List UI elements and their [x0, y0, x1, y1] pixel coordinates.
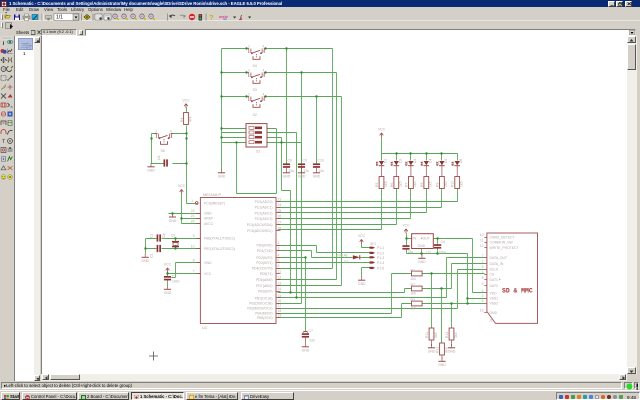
svg-text:C1: C1 — [150, 234, 154, 238]
svg-text:D3: D3 — [413, 159, 417, 163]
svg-text:VSS2: VSS2 — [490, 302, 499, 306]
svg-text:C9: C9 — [303, 159, 307, 163]
svg-text:U2: U2 — [427, 251, 431, 255]
svg-text:R2: R2 — [411, 283, 415, 287]
svg-text:R1: R1 — [411, 269, 415, 273]
svg-text:i: i — [3, 41, 5, 47]
svg-text:1/1: 1/1 — [56, 15, 63, 21]
svg-text:D1: D1 — [384, 159, 388, 163]
svg-text:26: 26 — [278, 215, 282, 219]
svg-text:S3: S3 — [253, 88, 257, 92]
svg-text:R3: R3 — [411, 298, 415, 302]
svg-text:R8: R8 — [420, 183, 424, 187]
svg-text:PD5(T1): PD5(T1) — [260, 272, 273, 276]
svg-text:MEGA8-P: MEGA8-P — [203, 192, 221, 197]
svg-text:14: 14 — [278, 287, 282, 291]
svg-text:C7: C7 — [309, 329, 313, 333]
svg-text:VDD: VDD — [490, 291, 498, 295]
svg-text:R11: R11 — [425, 332, 429, 338]
svg-text:T: T — [2, 139, 6, 145]
svg-text:7: 7 — [193, 270, 195, 274]
svg-text:1k0: 1k0 — [411, 291, 417, 295]
svg-text:D4: D4 — [428, 159, 432, 163]
svg-text:3k3: 3k3 — [434, 332, 438, 338]
svg-text:VCC: VCC — [204, 272, 212, 276]
svg-text:?: ? — [209, 13, 214, 21]
svg-text:9: 9 — [193, 234, 195, 238]
svg-text:6: 6 — [278, 264, 280, 268]
svg-text:R9: R9 — [435, 183, 439, 187]
svg-text:16: 16 — [278, 299, 282, 303]
svg-text:17: 17 — [278, 304, 282, 308]
svg-text:VSS1: VSS1 — [490, 297, 499, 301]
svg-text:3k3: 3k3 — [454, 332, 458, 338]
svg-text:PC3(ADC3): PC3(ADC3) — [255, 217, 273, 221]
svg-text:S1: S1 — [256, 150, 260, 154]
svg-text:15: 15 — [278, 294, 282, 298]
svg-text:22n: 22n — [289, 169, 295, 173]
svg-text:Q1: Q1 — [171, 234, 176, 238]
svg-text:11: 11 — [278, 270, 282, 274]
svg-text:22n: 22n — [319, 169, 325, 173]
svg-text:19: 19 — [278, 314, 282, 318]
svg-text:DATA_OUT: DATA_OUT — [490, 256, 508, 260]
svg-text:PD4(XCK/T0): PD4(XCK/T0) — [252, 267, 273, 271]
svg-text:R6: R6 — [390, 183, 394, 187]
svg-text:D6: D6 — [459, 159, 463, 163]
svg-text:1N4148: 1N4148 — [336, 253, 348, 257]
svg-text:1: 1 — [482, 270, 484, 274]
svg-text:22: 22 — [191, 209, 195, 213]
svg-text:PD7(AIN1): PD7(AIN1) — [256, 284, 272, 288]
svg-text:47k: 47k — [189, 116, 193, 122]
svg-text:SD & MMC: SD & MMC — [502, 288, 533, 295]
svg-text:CARD_DETECT: CARD_DETECT — [490, 235, 515, 239]
svg-text:PD0(RXD): PD0(RXD) — [256, 244, 272, 248]
svg-text:P1-1: P1-1 — [377, 246, 384, 250]
svg-text:GND: GND — [418, 244, 426, 248]
svg-text:13: 13 — [480, 309, 484, 313]
svg-text:100n: 100n — [172, 280, 180, 284]
svg-text:PB0(ICP): PB0(ICP) — [258, 290, 272, 294]
svg-text:SCLK: SCLK — [490, 268, 500, 272]
svg-text:1k0: 1k0 — [411, 277, 417, 281]
svg-text:1k5: 1k5 — [413, 181, 417, 187]
svg-text:6: 6 — [482, 299, 484, 303]
svg-text:2: 2 — [278, 241, 280, 245]
svg-text:PC5(ADC5/SCL): PC5(ADC5/SCL) — [247, 229, 272, 233]
svg-text:1k5: 1k5 — [444, 181, 448, 187]
svg-text:C2: C2 — [150, 254, 154, 258]
svg-text:12: 12 — [480, 244, 484, 248]
svg-text:1k5: 1k5 — [399, 181, 403, 187]
svg-text:S4: S4 — [253, 64, 257, 68]
svg-text:PC2(ADC2): PC2(ADC2) — [255, 211, 273, 215]
svg-text:4: 4 — [278, 253, 280, 257]
svg-text:23: 23 — [278, 198, 282, 202]
svg-text:D2: D2 — [398, 159, 402, 163]
svg-text:11: 11 — [480, 238, 484, 242]
svg-text:DAT2: DAT2 — [490, 284, 499, 288]
svg-text:C6: C6 — [157, 156, 161, 160]
svg-text:R10: R10 — [451, 181, 455, 187]
svg-text:R7: R7 — [404, 183, 408, 187]
svg-text:PB7(XTAL2/TOSC2): PB7(XTAL2/TOSC2) — [204, 247, 235, 251]
svg-text:U1: U1 — [202, 325, 208, 330]
svg-text:S2: S2 — [253, 113, 257, 117]
svg-text:D5: D5 — [444, 159, 448, 163]
svg-text:PD6(AIN0): PD6(AIN0) — [256, 278, 272, 282]
svg-text:PC0(ADC0): PC0(ADC0) — [255, 200, 273, 204]
svg-text:R13: R13 — [445, 332, 449, 338]
svg-text:WRITE_PROTECT: WRITE_PROTECT — [490, 246, 519, 250]
svg-text:5: 5 — [482, 265, 484, 269]
svg-text:R4: R4 — [180, 118, 184, 122]
svg-text:P1-3: P1-3 — [377, 256, 384, 260]
svg-text:C4: C4 — [441, 240, 445, 244]
svg-text:PC1(ADC1): PC1(ADC1) — [255, 206, 273, 210]
svg-text:PB3(MOSI/OC2): PB3(MOSI/OC2) — [247, 307, 272, 311]
svg-text:SIO: SIO — [370, 242, 376, 246]
svg-text:AVCC: AVCC — [204, 222, 214, 226]
svg-text:25: 25 — [278, 209, 282, 213]
svg-text:PD1(TXD): PD1(TXD) — [257, 249, 273, 253]
svg-text:C3: C3 — [172, 275, 176, 279]
svg-text:100n: 100n — [439, 250, 447, 254]
svg-text:5: 5 — [278, 259, 280, 263]
svg-text:24: 24 — [278, 203, 282, 207]
svg-text:12: 12 — [278, 276, 282, 280]
svg-text:GND: GND — [169, 219, 177, 223]
svg-text:R12: R12 — [436, 347, 440, 353]
svg-text:20: 20 — [191, 220, 195, 224]
svg-text:R5: R5 — [375, 183, 379, 187]
svg-text:3: 3 — [482, 294, 484, 298]
svg-text:DATA_IN: DATA_IN — [490, 262, 504, 266]
svg-text:1k0: 1k0 — [411, 307, 417, 311]
svg-text:C8: C8 — [288, 159, 292, 163]
svg-text:D7: D7 — [344, 260, 348, 264]
svg-text:GND: GND — [204, 212, 212, 216]
svg-text:1k5: 1k5 — [429, 181, 433, 187]
svg-text:21: 21 — [191, 214, 195, 218]
svg-text:PC4(ADC4/SDA): PC4(ADC4/SDA) — [247, 223, 273, 227]
svg-text:10u: 10u — [408, 250, 414, 254]
svg-text:PB6(XTAL1/TOSC1): PB6(XTAL1/TOSC1) — [204, 236, 235, 240]
svg-text:3: 3 — [278, 247, 280, 251]
svg-text:22n: 22n — [304, 169, 310, 173]
svg-text:PD2(INT0): PD2(INT0) — [256, 256, 272, 260]
svg-text:AREF: AREF — [204, 217, 213, 221]
svg-text:8: 8 — [193, 259, 195, 263]
svg-text:P1-4: P1-4 — [377, 261, 384, 265]
svg-text:PB2(SS/OC1B): PB2(SS/OC1B) — [249, 302, 272, 306]
svg-text:13: 13 — [278, 281, 282, 285]
svg-text:GND: GND — [490, 311, 498, 315]
svg-text:1k5: 1k5 — [384, 181, 388, 187]
svg-text:PB4(MISO): PB4(MISO) — [255, 312, 272, 316]
svg-text:PD3(INT1): PD3(INT1) — [256, 261, 272, 265]
svg-text:22p: 22p — [162, 233, 166, 239]
svg-text:PB5(SCK): PB5(SCK) — [257, 316, 273, 320]
svg-text:COMMON_SW: COMMON_SW — [490, 241, 514, 245]
svg-text:18: 18 — [278, 309, 282, 313]
svg-text:C10: C10 — [318, 159, 324, 163]
svg-text:P1-2: P1-2 — [377, 251, 384, 255]
svg-text:2: 2 — [482, 260, 484, 264]
svg-text:8: 8 — [482, 276, 484, 280]
svg-text:IN: IN — [413, 237, 417, 241]
svg-text:CS: CS — [490, 272, 495, 276]
svg-text:PC6(/RESET): PC6(/RESET) — [204, 202, 225, 206]
svg-text:J1: J1 — [489, 319, 493, 323]
svg-text:9: 9 — [482, 282, 484, 286]
svg-text:1k5: 1k5 — [460, 181, 464, 187]
svg-text:1: 1 — [191, 199, 193, 203]
svg-text:7: 7 — [482, 254, 484, 258]
svg-text:10: 10 — [191, 245, 195, 249]
svg-text:GND: GND — [204, 261, 212, 265]
svg-text:DAT1 +: DAT1 + — [490, 278, 501, 282]
svg-text:28: 28 — [278, 226, 282, 230]
svg-text:4: 4 — [482, 289, 484, 293]
svg-text:S6: S6 — [161, 149, 165, 153]
svg-text:27: 27 — [278, 221, 282, 225]
svg-text:22n: 22n — [310, 339, 316, 343]
svg-text:P1-5: P1-5 — [377, 266, 384, 270]
svg-text:10: 10 — [480, 233, 484, 237]
svg-text:+OUT: +OUT — [421, 237, 430, 241]
svg-text:PB1(OC1A): PB1(OC1A) — [255, 296, 273, 300]
